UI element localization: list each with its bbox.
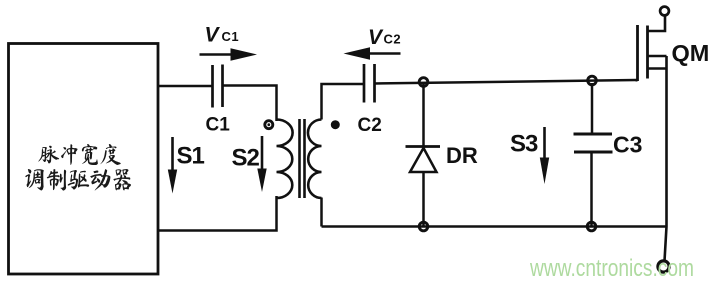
PWM driver box label 脉冲宽度 xyxy=(38,144,121,165)
arrow S3 (down) xyxy=(543,127,546,162)
svg-text:C2: C2 xyxy=(384,32,402,47)
arrow V_C2 (left) xyxy=(368,52,401,55)
svg-text:www.cntronics.com: www.cntronics.com xyxy=(529,255,694,282)
transformer secondary phase dot xyxy=(331,120,340,129)
arrow S1 (down) xyxy=(171,137,174,174)
svg-text:C2: C2 xyxy=(358,115,382,136)
wire secondary top to C2 xyxy=(322,84,365,120)
svg-text:S3: S3 xyxy=(510,131,538,158)
wire C2 to gate (top rail) xyxy=(375,80,638,84)
node: C3 bottom junction xyxy=(587,222,596,231)
wire box to C1 (top primary) xyxy=(157,85,213,88)
svg-text:C1: C1 xyxy=(206,115,231,136)
MOSFET QM channel line xyxy=(646,26,649,79)
svg-text:V: V xyxy=(205,24,221,47)
transformer T1 secondary winding xyxy=(308,120,322,199)
source terminal circle xyxy=(658,261,669,272)
transformer core xyxy=(298,119,301,198)
MOSFET QM gate line xyxy=(636,25,639,81)
drain terminal circle xyxy=(660,7,669,16)
wire primary bottom to box xyxy=(157,196,277,231)
svg-text:S2: S2 xyxy=(232,145,260,172)
svg-text:QM: QM xyxy=(672,40,710,66)
wire C1 to transformer primary xyxy=(223,86,277,122)
transformer T1 primary winding xyxy=(277,120,293,199)
diode DR xyxy=(422,84,425,147)
PWM driver box label 调制驱动器 xyxy=(25,169,131,191)
capacitor C1 plates xyxy=(211,65,214,108)
node: C3 top junction xyxy=(588,76,597,85)
node: diode bottom junction xyxy=(419,222,428,231)
capacitor C2 plates xyxy=(363,64,366,103)
svg-text:DR: DR xyxy=(446,143,478,168)
svg-text:C3: C3 xyxy=(613,132,642,158)
transformer primary phase dot xyxy=(265,121,273,129)
MOSFET source tab xyxy=(648,67,667,70)
arrow V_C1 (right) xyxy=(200,53,235,56)
svg-text:V: V xyxy=(368,26,384,49)
node: diode top junction xyxy=(419,78,428,87)
wire secondary bottom xyxy=(320,198,323,227)
svg-text:S1: S1 xyxy=(177,143,205,170)
capacitor C3 xyxy=(591,83,594,134)
MOSFET source lead down to terminal xyxy=(665,56,667,261)
MOSFET drain tab + lead xyxy=(648,16,666,32)
MOSFET body tab xyxy=(648,55,667,58)
arrow S2 (down) xyxy=(261,136,264,172)
PWM driver box U1 xyxy=(9,44,159,275)
bottom rail secondary xyxy=(322,225,667,228)
svg-text:C1: C1 xyxy=(222,29,240,44)
